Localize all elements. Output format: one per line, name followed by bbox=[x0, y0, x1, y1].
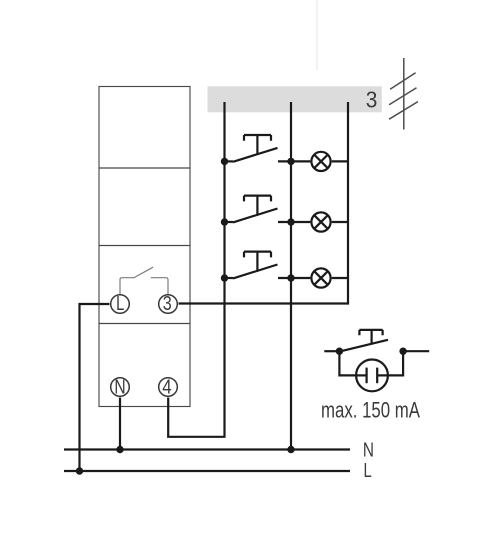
lamp E2 bbox=[311, 212, 348, 231]
terminal L bbox=[111, 293, 130, 315]
svg-text:N: N bbox=[363, 439, 374, 461]
N supply line bbox=[64, 448, 350, 450]
wire: switched conductor from busbar to terminal 3 bbox=[179, 102, 349, 304]
wire: lamp return conductor to N line bbox=[290, 102, 292, 450]
push-button S2 bbox=[225, 196, 311, 223]
svg-text:N: N bbox=[114, 377, 125, 399]
svg-text:L: L bbox=[364, 460, 372, 482]
supply busbar bbox=[208, 86, 382, 112]
terminal N bbox=[111, 377, 130, 399]
glow lamp (in S4) bbox=[339, 351, 403, 391]
svg-text:L: L bbox=[116, 293, 124, 315]
illuminated push-button S4 bbox=[324, 330, 429, 352]
svg-text:max. 150 mA: max. 150 mA bbox=[321, 398, 420, 423]
junction: S1 on feed wire bbox=[221, 158, 228, 165]
junction: L wire on L line bbox=[76, 467, 83, 474]
relay contact (internal switch) bbox=[120, 267, 168, 294]
svg-text:3: 3 bbox=[163, 293, 172, 315]
junction: glow lamp left tap bbox=[336, 348, 343, 355]
junction: N wire on N line bbox=[116, 446, 123, 453]
faint fold line bbox=[316, 0, 318, 70]
push-button S3 bbox=[225, 252, 311, 279]
wire: terminal L to L line bbox=[80, 304, 110, 471]
terminal 3 bbox=[159, 293, 178, 315]
terminal 4 bbox=[159, 377, 178, 399]
wire: terminal N to N line bbox=[119, 398, 121, 450]
3-conductor cable marker bbox=[389, 58, 418, 130]
svg-text:4: 4 bbox=[162, 377, 171, 399]
lamp E3 bbox=[311, 268, 348, 287]
push-button S1 bbox=[225, 135, 311, 162]
junction: lamp E2 on return wire bbox=[287, 218, 294, 225]
junction: S3 on feed wire bbox=[221, 274, 228, 281]
junction: lamp return on N line bbox=[287, 446, 294, 453]
junction: lamp E1 on return wire bbox=[287, 158, 294, 165]
svg-text:3: 3 bbox=[366, 87, 378, 113]
junction: glow lamp right tap bbox=[399, 348, 406, 355]
timer device outline U1 bbox=[99, 87, 190, 407]
lamp E1 bbox=[311, 152, 348, 171]
junction: S2 on feed wire bbox=[221, 218, 228, 225]
L supply line bbox=[64, 470, 350, 472]
junction: lamp E3 on return wire bbox=[287, 274, 294, 281]
wire: busbar feed to push-buttons and terminal 4 bbox=[168, 102, 224, 437]
